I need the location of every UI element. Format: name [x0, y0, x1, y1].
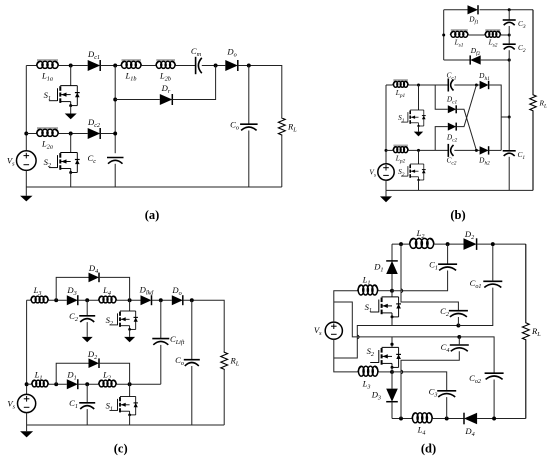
wire (a) Dc1 to node B: [100, 65, 121, 67]
wire (d) Vs- lead down: [334, 339, 358, 372]
node row2 left junction (a): [24, 132, 28, 136]
inductor L3 (d): [358, 366, 378, 376]
wire (b) C3 to mid: [508, 26, 510, 35]
wire (c) C1 top lead: [86, 384, 88, 403]
node C1 tap (c): [85, 382, 89, 386]
wire (d) S1 drain lead: [391, 291, 393, 297]
wire (d) C3 bottom lead: [446, 397, 448, 418]
wire hop at C4-loop crossing X2 row: [401, 370, 403, 374]
node Dh2 anode (b): [475, 149, 478, 152]
transistor S1 (d) MOSFET: [370, 297, 401, 319]
diode D2 (c): [89, 358, 100, 368]
wire (b) Dh1 to output vertical: [489, 85, 502, 150]
resistor RL (b): [530, 10, 536, 191]
wire (b) Df2 row: [444, 59, 471, 61]
capacitor C3 (b): [503, 20, 516, 25]
wire (c) lower row seg1: [27, 383, 32, 385]
ground (a) at source negative: [20, 187, 32, 201]
wire (b) Dh2 to output vertical: [489, 149, 502, 151]
diode Dc2 (b): [448, 123, 456, 131]
wire (b) Lp2 row left: [386, 149, 393, 151]
wire (c) C2 top lead: [86, 300, 88, 316]
wire (a) bottom rail: [26, 186, 281, 188]
ground (b) below source: [380, 190, 392, 202]
wire (a) row2 left segment: [26, 133, 36, 135]
ground (c) at S2 source: [124, 329, 135, 342]
inductor L2b: [156, 60, 176, 68]
transistor S1 (c) MOSFET: [110, 397, 138, 417]
wire (a) Co top lead: [248, 66, 250, 125]
wire (c) L3 to D3: [49, 299, 67, 301]
inductor Ls1: [450, 30, 468, 37]
wire (c) Co to rail: [191, 366, 193, 425]
wire (a) row1 left segment: [26, 65, 36, 67]
wire (a) Cc to rail: [114, 164, 116, 187]
wire (c) D2 branch: [56, 363, 88, 384]
node output- (d): [492, 417, 496, 421]
ground (c) below source: [20, 425, 33, 437]
wire (d) S1 source to upper rail: [391, 317, 393, 326]
node C4 tap bottom row (d): [399, 417, 403, 421]
transistor S2 (b) MOSFET: [401, 164, 426, 181]
wire (b) C2 to Df2 row and down: [508, 50, 510, 117]
wire (d) D3 cathode to bottom row: [391, 402, 393, 419]
node F junction (a): [113, 132, 117, 136]
wire (b) input vertical: [385, 85, 387, 164]
node output+ (d): [491, 242, 495, 246]
wire (c) D4 branch right: [99, 277, 130, 300]
wire (d) C1 bottom loop to X1: [392, 271, 448, 291]
wire (d) C4 loop wire: [401, 351, 459, 418]
inductor L2a: [37, 128, 59, 136]
wire (d) C3 wire from X2: [392, 372, 447, 391]
capacitor CLift: [152, 339, 169, 345]
node C2 tap top row (d): [399, 242, 403, 246]
node S1 drain (b): [417, 84, 420, 87]
wire (a) Do to output node: [238, 66, 282, 118]
wire (a) S1 drain lead: [70, 66, 72, 86]
ground (c) at C2: [82, 337, 93, 342]
node D2 branch left (c): [54, 382, 58, 386]
wire (d) L4 to D4: [433, 418, 465, 420]
wire (b) snubber left vertical: [443, 10, 445, 60]
node output (c): [190, 298, 194, 302]
node S2 drain (b): [417, 149, 420, 152]
voltage source Vs (b): [378, 164, 394, 180]
wire (d) D3 anode lead: [391, 372, 393, 389]
diode D4 (d): [464, 413, 477, 425]
transistor S1 (b) MOSFET: [401, 110, 426, 127]
diode D1 (c): [67, 379, 78, 389]
inductor Ls2: [485, 30, 501, 37]
inductor L1b: [121, 60, 141, 68]
svg-text:(d): (d): [421, 442, 436, 456]
wire (c) L4 to Dlkd: [117, 299, 141, 301]
wire (d) L1 to S1 drain node: [378, 290, 392, 292]
inductor Lp2: [393, 146, 409, 153]
wire (c) S2 drain lead: [129, 300, 131, 311]
wire (b) Lp2 to Cc2: [408, 149, 448, 151]
wire (c) C2 to ground: [86, 322, 88, 337]
diode Dc2: [88, 128, 101, 139]
wire (b) C2 top lead: [508, 35, 510, 44]
svg-text:(a): (a): [145, 208, 160, 222]
wire (d) D1 anode lead: [391, 274, 393, 291]
capacitor Co (a): [240, 124, 258, 130]
wire (c) D3 to L4: [78, 299, 99, 301]
wire (c) upper row seg1: [27, 299, 31, 301]
capacitor C3 (d): [437, 391, 456, 397]
wire (b) Dc2 cross to Dh1: [456, 85, 476, 127]
wire (a) Cm to node C: [202, 65, 226, 67]
wire (b) top row left: [444, 9, 468, 11]
diode Dr: [160, 94, 173, 105]
capacitor Co (c): [184, 360, 200, 366]
wire (c) Do to output corner: [183, 300, 224, 352]
wire (b) S2 drain lead: [418, 150, 420, 164]
wire (d) lower rail to Co2: [459, 337, 494, 373]
wire (a) S2 source to rail: [70, 173, 72, 188]
diode Dh1: [480, 81, 489, 89]
node Df2 right (b): [508, 59, 511, 62]
node B junction (a): [113, 64, 117, 68]
node Dh1 anode (b): [475, 84, 478, 87]
node X1 (d): [390, 289, 394, 293]
node C2 tap (c): [85, 298, 89, 302]
wire (d) bottom row: [392, 418, 412, 420]
wire (d) upper rail to Co1: [458, 288, 492, 326]
node multiplier mid (b): [508, 116, 511, 119]
diode D3 (c): [67, 295, 78, 305]
node top-right (b): [508, 8, 511, 11]
wire (d) D4 to bottom-right corner: [477, 418, 526, 420]
capacitor C1 (c): [79, 403, 95, 409]
wire (d) Co2 to bottom row: [493, 380, 495, 419]
transistor S2 (d) MOSFET: [370, 347, 401, 369]
wire (d) L2 to D2: [434, 243, 464, 245]
capacitor Co2: [485, 373, 504, 379]
capacitor C1 (d): [438, 264, 457, 270]
voltage source Vs (a): [17, 151, 37, 171]
diode D3 (d): [386, 389, 398, 402]
transistor S2 (a) MOSFET: [49, 153, 80, 175]
inductor L4 (d): [412, 413, 433, 423]
node snubber mid right (b): [508, 34, 511, 37]
node CLift top (c): [159, 298, 163, 302]
transistor S2 (c) MOSFET: [110, 311, 138, 331]
svg-text:(c): (c): [114, 442, 128, 456]
node E junction (a) S2 drain: [69, 132, 73, 136]
capacitor C2 (c): [79, 316, 95, 322]
inductor L2 (d): [410, 238, 435, 248]
wire (b) C3 top lead: [508, 10, 510, 20]
resistor RL (c): [221, 352, 228, 369]
wire (c) C1 to rail: [86, 409, 88, 425]
wire (d) C1 top lead: [447, 244, 449, 264]
diode Dh2: [480, 146, 489, 154]
diode Dc1 (b): [448, 105, 456, 113]
diode Do (a): [225, 60, 238, 71]
node Lp2 row left (b): [385, 149, 388, 152]
wire (b) C1 to rail: [508, 157, 510, 191]
wire (b) S1 drain lead: [418, 85, 420, 110]
wire (d) S2 source to lower rail: [391, 337, 393, 348]
capacitor Cc: [107, 158, 124, 164]
node S2 source body tap (d): [390, 343, 393, 346]
wire (b) Cc2 to Dh2: [454, 149, 479, 151]
node S1 drain (c): [128, 382, 132, 386]
inductor L4 (c): [99, 296, 117, 303]
wire (c) CLift to lower row: [160, 345, 162, 384]
node S2 drain (c): [128, 298, 132, 302]
diode D2 (d): [464, 238, 477, 250]
inductor L1 (d): [358, 285, 378, 295]
node snubber mid left (b): [442, 34, 445, 37]
wire (c) S1 source to rail: [129, 415, 131, 425]
wire (a) Dr row left: [115, 99, 160, 101]
wire (c) D2 branch right: [99, 363, 130, 384]
diode Dlkd: [141, 295, 152, 305]
wire (c) bottom rail: [27, 424, 225, 426]
wire (b) C1 top lead: [508, 117, 510, 151]
wire (d) top row: [392, 243, 410, 245]
capacitor Co1: [483, 281, 502, 287]
node C3 bottom (d): [445, 417, 449, 421]
wire (d) Vs- branch to upper rail: [334, 326, 459, 359]
wire (b) Dc1 cross to Dh2: [456, 109, 476, 150]
wire (a) L1b to L2b: [141, 65, 155, 67]
wire (d) Vs+ branch to lower rail: [334, 302, 460, 337]
wire (d) C4 top lead: [458, 337, 460, 345]
diode Dc1: [88, 60, 101, 71]
node X2 (d): [390, 370, 394, 374]
node A junction (a) S1 drain: [69, 64, 73, 68]
wire (a) Dc2 to node F: [100, 133, 115, 135]
wire (a) input top-left vertical: [25, 66, 27, 151]
node C2 bottom on upper rail (d): [456, 324, 460, 328]
capacitor C1 (b): [503, 151, 516, 156]
inductor L2 (c): [99, 380, 117, 387]
inductor L1 (c): [32, 380, 49, 387]
wire (c) L1 to D1: [49, 383, 67, 385]
wire (c) L2 to CLift corner: [117, 383, 161, 385]
wire (c) Co top lead: [191, 300, 193, 360]
node output (a): [247, 64, 251, 68]
wire (d) L3 to S2 drain node: [378, 371, 392, 373]
wire (b) Vs to rail: [385, 180, 387, 190]
wire (a) L1a to Dc1: [59, 65, 88, 67]
wire (b) Dc1 anode vertical: [435, 85, 448, 109]
wire (d) C2 bottom lead: [457, 317, 459, 326]
wire (a) RL to rail: [281, 136, 283, 188]
voltage source Vs (c): [18, 394, 36, 412]
wire (d) D1 cathode lead: [391, 244, 393, 261]
voltage source Vs (d): [325, 322, 342, 339]
wire (c) RL to rail: [223, 369, 225, 425]
wire (c) S1 drain lead: [129, 384, 131, 396]
diode D1 (d): [386, 261, 398, 274]
wire (d) Vs top lead to L1 row: [334, 291, 358, 322]
wire (a) Dr to node C vertical: [172, 66, 215, 100]
inductor L3 (c): [31, 296, 49, 303]
wire (c) CLift top lead: [160, 300, 162, 338]
wire (d) C2 loop wire: [401, 244, 458, 311]
resistor RL (a): [278, 118, 285, 136]
svg-text:(b): (b): [450, 208, 465, 222]
wire hop at Vs- branch crossing lower rail: [357, 335, 359, 339]
diode D4 (c): [89, 273, 100, 283]
wire (b) link Dh mid to vertical: [501, 116, 509, 118]
wire (d) S2 drain lead to X2: [391, 367, 393, 372]
wire (b) bottom rail: [386, 189, 533, 191]
capacitor C2 (b): [503, 44, 516, 49]
wire (c) input left vertical: [26, 300, 28, 394]
wire (d) D2 to top-right corner: [477, 243, 526, 245]
wire hop at C2-loop crossing X1 row: [401, 289, 403, 293]
wire (a) node B vertical: [114, 66, 116, 154]
node C2-bottom junction (b): [508, 59, 511, 62]
wire (c) Dlkd to Do: [152, 299, 172, 301]
ground (a) at S1 source: [65, 106, 77, 120]
capacitor C2 (d): [449, 311, 468, 317]
wire (b) Df2 to vertical: [481, 59, 510, 61]
wire (b) Cc1 to Dh1: [454, 84, 479, 86]
wire (c) Vs to rail: [26, 413, 28, 425]
wire (a) L2a to Dc2: [59, 133, 88, 135]
wire (b) S2 source to rail: [418, 180, 420, 190]
wire (b) Lp1 row left: [386, 84, 393, 86]
diode Df1: [468, 5, 479, 14]
wire (b) top row right: [480, 9, 534, 11]
node C junction (a): [214, 64, 218, 68]
diode Do (c): [172, 295, 183, 305]
diode Df2: [470, 55, 481, 64]
inductor Lp1: [393, 80, 409, 87]
wire (b) Lp1 to Cc1: [408, 84, 448, 86]
node C1 top (d): [446, 242, 450, 246]
wire (d) Co1 top lead: [492, 244, 494, 281]
wire (a) Co bottom lead: [248, 131, 250, 188]
capacitor Cc1: [448, 79, 453, 92]
node lower row left (c): [25, 382, 29, 386]
node Dr-row junction (a): [113, 98, 117, 102]
wire (c) D1 to L2: [78, 383, 99, 385]
wire (b) Ls2 to C-string: [501, 34, 509, 36]
wire (a) Vs bottom to ground rail: [25, 170, 27, 187]
capacitor Cc2: [448, 144, 453, 157]
capacitor C4 (d): [450, 345, 469, 351]
inductor L1a: [37, 60, 59, 68]
node C4 top on lower rail (d): [457, 335, 461, 339]
resistor RL (d): [522, 244, 529, 418]
transistor S1 (a) MOSFET: [49, 86, 80, 108]
ground (b) at S1 source: [414, 126, 423, 136]
capacitor Cm: [196, 57, 202, 74]
wire (b) Dc2 anode vertical: [435, 127, 448, 151]
node D4 branch left (c): [54, 298, 58, 302]
wire (a) S2 drain lead: [70, 134, 72, 153]
wire (c) D4 branch: [56, 277, 88, 300]
wire (b) Ls1 to Ls2: [468, 34, 485, 36]
wire (a) L2b to Cm: [176, 65, 196, 67]
